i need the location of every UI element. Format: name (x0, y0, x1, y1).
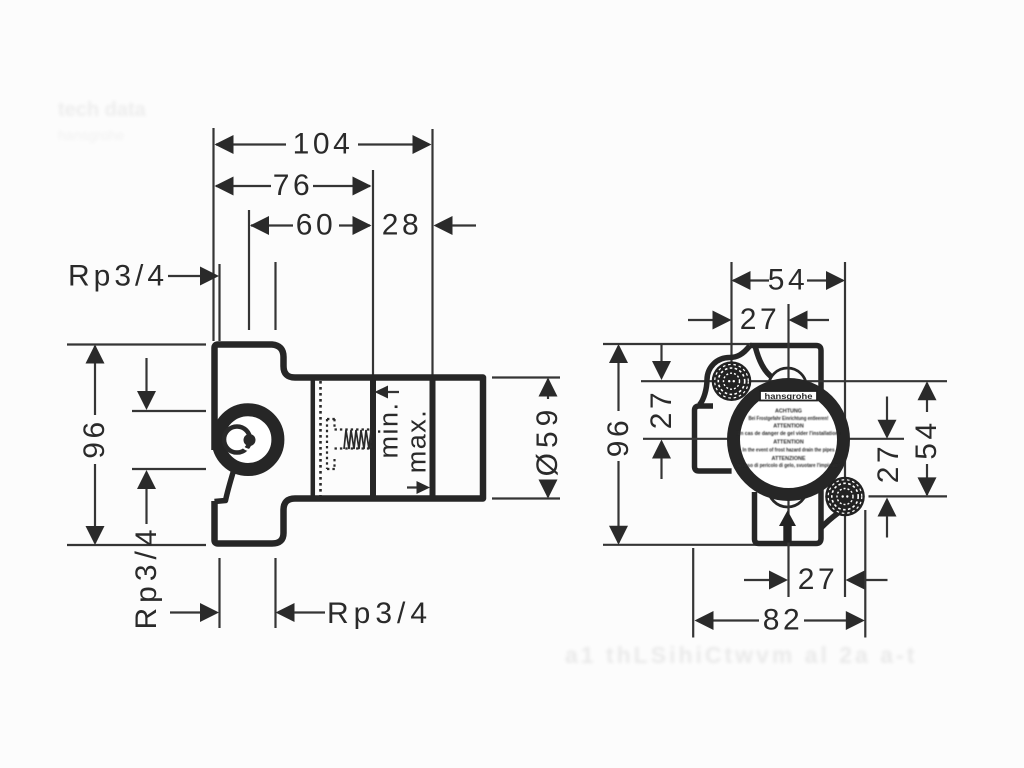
dimension 60 (250, 209, 372, 242)
protection cover big circle (734, 385, 844, 495)
svg-text:ATTENZIONE: ATTENZIONE (771, 456, 805, 462)
extension line left face x=213.5 (212, 128, 214, 341)
svg-text:hansgrohe: hansgrohe (765, 391, 813, 401)
dimension D59 (492, 378, 564, 499)
extension line lower port center x=845 (844, 262, 846, 597)
dimension 27 upper-left (641, 344, 714, 479)
horizontal centerline over plate (643, 438, 904, 440)
extension line min plane x=373 (372, 170, 374, 377)
bottom port extension lines (218, 558, 220, 628)
orientation up arrow (779, 511, 796, 543)
plate body outline (695, 346, 822, 544)
body outline left view (215, 345, 484, 544)
top hump boss (769, 368, 807, 406)
faint watermark bottom band (565, 642, 917, 668)
dimension 54 right (910, 381, 943, 496)
svg-text:ATTENTION: ATTENTION (773, 440, 804, 446)
dimension 82 bottom (693, 510, 865, 638)
extension line upper port center x=731.5 (730, 262, 732, 365)
dimension 104 (215, 128, 432, 161)
svg-text:In caso di pericolo di gelo, s: In caso di pericolo di gelo, svuotare l'… (737, 463, 840, 469)
svg-text:ACHTUNG: ACHTUNG (775, 409, 802, 415)
svg-text:Rp3/4: Rp3/4 (327, 597, 432, 630)
svg-text:96: 96 (78, 418, 111, 459)
bottom hump boss (768, 468, 807, 507)
dimension 96 left (67, 345, 206, 546)
warning text lines (737, 409, 840, 470)
plate body fill (695, 346, 822, 544)
connector top edge to ring (755, 346, 780, 384)
thread dotted line (319, 381, 322, 496)
vertical centerline over plate (787, 342, 789, 597)
cartridge flange line (311, 377, 316, 498)
svg-text:a1 thLSihiCtwvm al 2a a-t: a1 thLSihiCtwvm al 2a a-t (565, 642, 917, 668)
dimension 27 bottom (744, 563, 888, 596)
svg-text:82: 82 (763, 604, 804, 637)
label Rp3/4 top (68, 260, 219, 293)
extension line top port center x=249 (248, 210, 250, 330)
port inner symbol circle (224, 427, 250, 453)
dimension 76 (215, 169, 372, 202)
lower port disc (825, 477, 865, 517)
dimension 28 (382, 209, 476, 242)
vertical centerline (787, 304, 789, 342)
svg-text:En cas de danger de gel vider: En cas de danger de gel vider l'installa… (737, 431, 840, 437)
svg-text:104: 104 (293, 128, 354, 161)
svg-text:96: 96 (602, 417, 635, 458)
side port ring (218, 410, 278, 470)
svg-text:28: 28 (382, 209, 423, 242)
dimension 54 top (732, 264, 846, 297)
port inner symbol dot (244, 434, 256, 446)
body contour below side port (215, 471, 234, 502)
svg-text:min.: min. (374, 401, 404, 458)
min arrow (380, 391, 399, 393)
plate left tab outline (695, 406, 732, 471)
upper port center line over plate (714, 380, 947, 382)
svg-text:Rp3/4: Rp3/4 (130, 524, 163, 629)
label Rp3/4 bottom (170, 597, 432, 630)
dimension side port Rp3/4 (small arrows) (130, 358, 206, 630)
dimension 96 right view (602, 344, 757, 545)
faint watermark top-left (58, 99, 147, 143)
svg-text:27: 27 (740, 303, 781, 336)
svg-text:tech data: tech data (58, 99, 147, 121)
min max arrows (374, 386, 432, 495)
connector lower boss to plate edge (821, 513, 839, 529)
dimension 27 right (869, 397, 948, 538)
svg-text:27: 27 (872, 443, 905, 484)
min plane divider (370, 375, 376, 500)
svg-text:54: 54 (768, 264, 809, 297)
svg-text:54: 54 (910, 419, 943, 460)
svg-text:27: 27 (645, 389, 678, 430)
svg-text:27: 27 (798, 563, 839, 596)
svg-text:Bei Frostgefahr Einrichtung en: Bei Frostgefahr Einrichtung entleeren! (749, 416, 829, 422)
extension line top port right x=275.5 (274, 262, 276, 330)
svg-text:hansgrohe: hansgrohe (58, 127, 124, 143)
svg-text:max.: max. (402, 409, 432, 474)
cartridge spindle dotted outline (327, 419, 371, 469)
svg-text:76: 76 (273, 169, 314, 202)
svg-text:Rp3/4: Rp3/4 (68, 260, 168, 293)
upper port disc (712, 361, 752, 401)
max arrow (407, 486, 424, 488)
cartridge spring zigzag (344, 430, 371, 449)
max plane divider (430, 375, 436, 500)
hansgrohe label box (760, 391, 817, 401)
upper port boss wrap (700, 346, 751, 405)
extension line top port left x=219.5 (218, 264, 220, 341)
svg-text:60: 60 (296, 209, 337, 242)
placeholder (660, 344, 662, 363)
svg-text:ATTENTION: ATTENTION (773, 424, 804, 430)
extension line max plane x=432.5 (431, 129, 433, 377)
dimension 27 top (688, 303, 829, 336)
svg-text:Ø59: Ø59 (531, 405, 564, 477)
svg-text:In the event of frost hazard d: In the event of frost hazard drain the p… (743, 448, 835, 454)
